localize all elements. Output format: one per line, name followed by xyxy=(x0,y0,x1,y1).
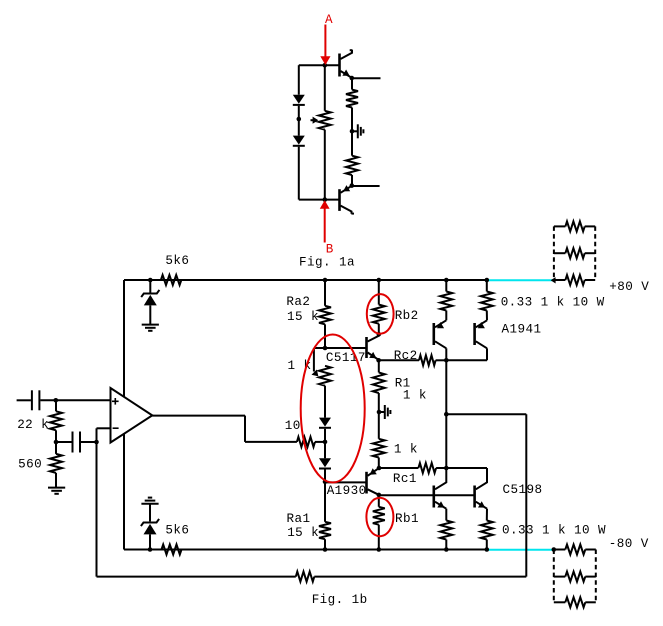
svg-text:10: 10 xyxy=(285,419,301,433)
svg-text:C5198: C5198 xyxy=(503,483,543,497)
svg-text:Ra2: Ra2 xyxy=(286,295,310,309)
svg-text:1 k: 1 k xyxy=(394,443,418,457)
svg-text:0.33 1 k 10 W: 0.33 1 k 10 W xyxy=(502,524,606,538)
svg-text:+80 V: +80 V xyxy=(609,280,649,294)
svg-text:0.33 1 k 10 W: 0.33 1 k 10 W xyxy=(501,296,605,310)
svg-text:15 k: 15 k xyxy=(287,526,319,540)
svg-text:A1930: A1930 xyxy=(327,484,367,498)
svg-text:5k6: 5k6 xyxy=(165,254,189,268)
svg-text:1 k: 1 k xyxy=(403,389,427,403)
svg-text:A: A xyxy=(325,13,333,27)
svg-text:Ra1: Ra1 xyxy=(287,512,311,526)
svg-text:22 k: 22 k xyxy=(17,418,49,432)
svg-text:Fig. 1a: Fig. 1a xyxy=(299,256,355,270)
svg-text:-80 V: -80 V xyxy=(609,537,649,551)
svg-text:A1941: A1941 xyxy=(502,322,542,336)
svg-text:15 k: 15 k xyxy=(287,310,319,324)
svg-text:C5117: C5117 xyxy=(326,351,366,365)
svg-text:B: B xyxy=(326,243,334,257)
svg-text:Rb1: Rb1 xyxy=(395,512,419,526)
svg-text:Rb2: Rb2 xyxy=(395,309,419,323)
svg-text:Rc2: Rc2 xyxy=(394,349,418,363)
svg-text:5k6: 5k6 xyxy=(165,524,189,538)
svg-text:Fig. 1b: Fig. 1b xyxy=(312,593,368,607)
svg-text:560: 560 xyxy=(18,458,42,472)
svg-text:Rc1: Rc1 xyxy=(393,472,417,486)
